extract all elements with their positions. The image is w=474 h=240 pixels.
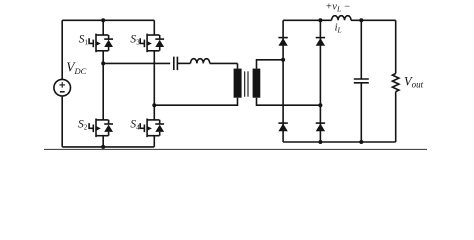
svg-text:−: − xyxy=(344,2,351,13)
svg-text:+: + xyxy=(325,2,332,13)
